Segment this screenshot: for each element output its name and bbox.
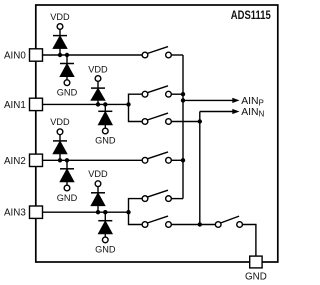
- wire S5 to AINP bus: [171, 198, 183, 200]
- wire AINP bus: [182, 55, 184, 199]
- diode D6 AIN2 (clamp to GND): [60, 160, 74, 185]
- diode D5 AIN2 (clamp to VDD): [53, 135, 67, 161]
- GND terminal for D6 AIN2: [64, 185, 70, 191]
- GND terminal for D8 AIN3: [102, 237, 108, 243]
- pin GND box: [250, 256, 262, 268]
- svg-text:GND: GND: [95, 245, 116, 255]
- pin AIN2 box: [30, 154, 43, 166]
- svg-text:AIN1: AIN1: [4, 100, 26, 111]
- svg-text:ADS1115: ADS1115: [231, 8, 271, 22]
- junction AIN3/D7: [96, 210, 100, 214]
- pin AIN3 box: [30, 206, 43, 218]
- junction AIN1 stub: [126, 102, 130, 106]
- wire AIN1 line: [36, 103, 129, 105]
- junction AIN2/D6: [65, 158, 69, 162]
- junction AINN bus/S6-S7: [198, 222, 202, 226]
- VDD terminal for D5 AIN2: [57, 129, 63, 135]
- svg-text:VDD: VDD: [88, 169, 108, 179]
- svg-text:AIN0: AIN0: [4, 51, 26, 62]
- switch S4 (AIN2-AINP): [142, 152, 171, 163]
- VDD terminal for D3 AIN1: [95, 76, 101, 82]
- arrowhead AINN: [232, 109, 239, 114]
- wire AIN0 line: [36, 54, 142, 56]
- switch S1 (AIN0-AINP): [142, 47, 171, 58]
- junction AINP bus/S2: [181, 92, 185, 96]
- svg-text:GND: GND: [95, 135, 116, 145]
- svg-text:GND: GND: [57, 88, 78, 98]
- wire AINN output line: [200, 111, 234, 113]
- junction AIN3 stub: [126, 210, 130, 214]
- junction AIN1/D4: [103, 102, 107, 106]
- wire AIN3 switch stub: [129, 199, 143, 225]
- wire AIN3 line: [36, 211, 129, 213]
- GND terminal for D4 AIN1: [102, 128, 108, 134]
- wire S4 to AINP bus: [171, 159, 183, 161]
- junction AINP bus/S4: [181, 158, 185, 162]
- switch S2 (AIN1-AINP): [142, 86, 171, 97]
- junction AIN1/D3: [96, 102, 100, 106]
- junction AIN0/D2: [65, 53, 69, 57]
- wire S7 to GND pin: [242, 225, 255, 256]
- pin AIN0 box: [30, 49, 43, 61]
- junction AINN bus/S3: [198, 119, 202, 123]
- wire S6 to S7 (AINN bus tap): [171, 224, 215, 226]
- svg-text:VDD: VDD: [50, 117, 70, 127]
- junction AIN3/D8: [103, 210, 107, 214]
- junction AIN0/D1: [58, 53, 62, 57]
- svg-text:VDD: VDD: [50, 12, 70, 22]
- GND terminal for D2 AIN0: [64, 80, 70, 86]
- wire AINP output line: [183, 99, 234, 101]
- VDD terminal for D1 AIN0: [57, 24, 63, 30]
- wire AINN bus: [199, 112, 201, 225]
- svg-text:AINP: AINP: [241, 96, 264, 108]
- switch S7 (GND-AINN): [215, 216, 242, 227]
- wire AIN1 switch stub: [129, 94, 143, 121]
- pin AIN1 box: [30, 98, 43, 110]
- svg-text:AIN3: AIN3: [4, 208, 26, 219]
- IC boundary ADS1115: [36, 5, 278, 262]
- svg-text:VDD: VDD: [88, 64, 108, 74]
- diode D7 AIN3 (clamp to VDD): [91, 187, 105, 213]
- switch S5 (AIN3-AINP): [142, 190, 171, 201]
- diode D1 AIN0 (clamp to VDD): [53, 29, 67, 55]
- diode D2 AIN0 (clamp to GND): [60, 55, 74, 80]
- diode D8 AIN3 (clamp to GND): [98, 212, 112, 237]
- junction AINP bus/output: [181, 98, 185, 102]
- wire S1 to AINP bus: [171, 54, 183, 56]
- diode D3 AIN1 (clamp to VDD): [91, 81, 105, 104]
- svg-text:AINN: AINN: [241, 107, 264, 119]
- wire S3 to AINN bus: [171, 121, 199, 123]
- wire S2 to AINP bus: [171, 93, 183, 95]
- switch S3 (AIN1-AINN): [142, 113, 171, 124]
- arrowhead AINP: [232, 98, 239, 103]
- svg-text:GND: GND: [57, 193, 78, 203]
- diode D4 AIN1 (clamp to GND): [98, 104, 112, 128]
- junction AIN2/D5: [58, 158, 62, 162]
- svg-text:AIN2: AIN2: [4, 156, 26, 167]
- wire AIN2 line: [36, 159, 142, 161]
- VDD terminal for D7 AIN3: [95, 181, 101, 187]
- switch S6 (AIN3-AINN): [142, 216, 171, 227]
- svg-text:GND: GND: [245, 271, 267, 282]
